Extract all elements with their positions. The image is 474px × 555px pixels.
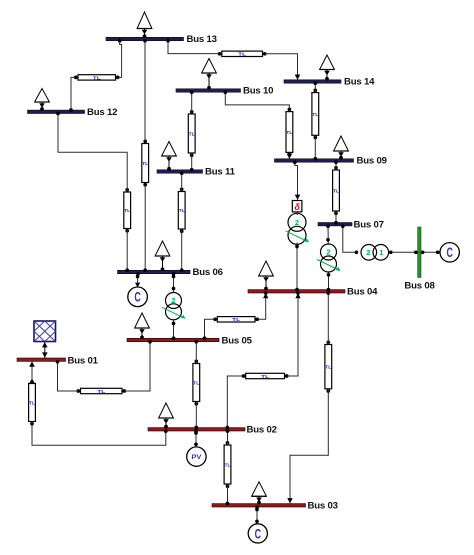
bus Bus 14 — [284, 77, 375, 88]
node transformer 4-9 terminal — [295, 245, 299, 249]
wire Bus05 to line 1-5 — [125, 342, 151, 391]
bus Bus 04 — [248, 287, 378, 298]
wire regulator to transformer 4-9 — [296, 212, 298, 215]
svg-text:Bus 09: Bus 09 — [357, 156, 387, 167]
svg-text:Bus 07: Bus 07 — [354, 219, 384, 230]
svg-text:TL: TL — [97, 389, 105, 395]
line Line 1-5 — [76, 388, 126, 395]
load Load 10 — [202, 59, 217, 90]
node Bus01 bottom connection arrows — [29, 360, 59, 367]
wire Bus06 to generator C6 (with arrow) — [135, 274, 140, 288]
line Line 12-13 — [74, 75, 120, 82]
bus Bus 03 — [212, 501, 338, 512]
svg-text:2: 2 — [366, 248, 370, 257]
line Line 6-13 — [142, 139, 149, 186]
bus Bus 11 — [157, 167, 236, 178]
line Line 9-10 — [286, 108, 293, 157]
generator C at Bus 06 — [128, 287, 148, 307]
line Line 4-5 — [213, 317, 259, 324]
node generator PV terminal — [194, 431, 198, 446]
wire Bus01 to line 1-2 — [31, 362, 33, 384]
svg-text:TL: TL — [224, 462, 230, 468]
svg-text:TL: TL — [193, 380, 199, 386]
wire Bus12 to line 6-12 — [58, 114, 127, 192]
wire Bus07 to transformer 4-7 — [327, 226, 329, 244]
generator PV at Bus 02 — [187, 447, 206, 466]
wire line 9-14 to Bus09 — [314, 136, 316, 159]
wire Bus09 to regulator/transformer 4-9 (with arrow) — [295, 162, 301, 200]
wire line 7-9 to Bus07 — [335, 211, 337, 222]
svg-text:2: 2 — [326, 248, 330, 257]
svg-text:Bus 04: Bus 04 — [347, 287, 378, 298]
node Bus10 junctions — [190, 90, 227, 94]
node Bus07 junctions — [326, 221, 345, 228]
wire Bus08 to generator C8 — [421, 251, 440, 253]
wire transformer 5-6 to Bus05 — [173, 320, 175, 338]
svg-text:2: 2 — [171, 296, 175, 305]
wire line 6-12 to Bus06 — [126, 229, 128, 270]
svg-text:TL: TL — [261, 374, 269, 380]
wire Bus13 to line 6-13 — [144, 41, 146, 141]
transformer T 5-6 — [162, 293, 186, 320]
node Bus12 junctions — [56, 108, 73, 115]
wire line 1-5 to Bus01 — [58, 362, 79, 392]
wire Bus03 to generator C3 — [256, 507, 258, 524]
wire line 12-13 to Bus12 — [71, 77, 76, 110]
bus Bus 13 — [106, 34, 217, 45]
svg-text:Bus 12: Bus 12 — [87, 107, 117, 118]
svg-text:C: C — [134, 290, 141, 305]
generator C at Bus 08 — [440, 243, 459, 262]
node Bus09 junctions — [293, 157, 338, 164]
load Load 06 — [155, 241, 170, 271]
wire Bus11 to line 6-11 — [181, 173, 183, 191]
wire line 2-5 to Bus02 — [195, 402, 197, 428]
wire line 9-10 to Bus09 (with arrow) — [287, 153, 293, 159]
load Load 03 — [252, 482, 267, 505]
line Line 6-12 — [124, 188, 131, 233]
svg-text:2: 2 — [295, 218, 299, 227]
svg-text:Bus 10: Bus 10 — [243, 86, 273, 97]
generator C at Bus 03 — [248, 524, 267, 543]
load Load 09 — [334, 136, 349, 160]
svg-text:Bus 02: Bus 02 — [247, 425, 277, 436]
wire line 4-5 to Bus04 (with arrow) — [258, 293, 268, 319]
node Bus04 junctions — [264, 288, 331, 295]
svg-text:TL: TL — [124, 208, 130, 214]
bus Bus 05 — [127, 335, 253, 346]
svg-text:Bus 06: Bus 06 — [193, 267, 223, 278]
node Bus14 junctions — [313, 81, 317, 85]
wire Bus13 to line 12-13 (down-left) — [118, 41, 122, 78]
line Line 7-9 — [333, 166, 340, 215]
wire line 10-11 to Bus11 — [191, 153, 193, 169]
wire transformer 4-9 to Bus04 — [296, 243, 298, 290]
svg-text:TL: TL — [238, 52, 246, 58]
load Load 12 — [35, 89, 50, 111]
svg-text:Bus 05: Bus 05 — [222, 335, 253, 346]
node Bus06 junctions — [125, 268, 183, 275]
svg-text:Bus 08: Bus 08 — [404, 281, 435, 292]
svg-text:TL: TL — [93, 75, 101, 81]
wire Bus10 to line 9-10 — [225, 92, 289, 111]
svg-text:TL: TL — [325, 364, 331, 370]
wire Bus06 to transformer 5-6 — [173, 274, 175, 293]
wire Bus02 to generator PV — [195, 431, 197, 447]
svg-text:C: C — [255, 526, 262, 541]
node Bus02 junctions — [164, 426, 229, 433]
transformer T 4-7 — [317, 244, 341, 272]
node transformer 4-7 terminals — [326, 238, 330, 277]
node Bus11 junctions — [180, 168, 194, 175]
wire Bus05 to line 4-5 — [205, 319, 215, 338]
node Bus13 junctions — [118, 39, 170, 43]
wire transformer 7-8 to Bus08 — [392, 251, 418, 253]
line Line 9-14 — [312, 89, 319, 140]
bus Bus 06 — [118, 267, 223, 278]
bus Bus 08 — [404, 227, 435, 292]
node Bus08 junctions — [414, 250, 440, 254]
node transformer 5-6 terminals — [172, 275, 176, 326]
svg-text:Bus 14: Bus 14 — [344, 77, 375, 88]
wire line 13-14 to Bus14 (with arrow) — [265, 54, 300, 80]
line Line 10-11 — [188, 110, 195, 157]
wire transformer 4-7 to Bus04 — [328, 272, 330, 290]
wire Bus14 to line 9-14 — [314, 83, 316, 92]
wire Bus13 to line 13-14 — [168, 41, 220, 54]
svg-text:Bus 03: Bus 03 — [308, 501, 338, 512]
svg-text:TL: TL — [179, 208, 185, 214]
bus Bus 10 — [176, 86, 273, 97]
load Load 02 — [159, 403, 174, 428]
wire line 6-11 to Bus06 — [181, 229, 183, 270]
svg-text:Bus 11: Bus 11 — [205, 167, 236, 178]
line Line 6-11 — [178, 187, 185, 233]
svg-text:TL: TL — [286, 130, 292, 136]
svg-text:Bus 01: Bus 01 — [68, 355, 99, 366]
load Load 05 — [135, 313, 150, 339]
svg-text:TL: TL — [333, 188, 339, 194]
wire line 3-4 to Bus03 (long, with arrow) — [287, 293, 328, 503]
line Line 2-3 — [224, 441, 231, 488]
node generator C6 terminal — [136, 275, 140, 279]
svg-text:TL: TL — [312, 112, 318, 118]
wire line 1-2 to Bus02 (long) — [32, 422, 166, 446]
wire line 2-3 to Bus03 — [227, 484, 229, 503]
svg-text:C: C — [447, 245, 454, 260]
svg-text:Bus 13: Bus 13 — [187, 34, 217, 45]
node Bus05 junctions — [148, 336, 206, 343]
bus Bus 02 — [148, 425, 277, 436]
external grid feeder — [34, 321, 56, 358]
svg-text:TL: TL — [29, 400, 35, 406]
wire line 2-4 to Bus04 (with arrow) — [287, 293, 301, 376]
bus Bus 09 — [275, 156, 387, 167]
transformer T 7-8 — [355, 245, 393, 261]
svg-text:δ: δ — [295, 202, 301, 212]
wire Bus05 to line 2-5 — [195, 342, 197, 363]
wire Bus10 to line 10-11 — [191, 92, 193, 113]
regulator box (transformer 4-9 control) — [292, 201, 302, 212]
svg-text:1: 1 — [379, 248, 383, 257]
load Load 11 — [162, 142, 177, 171]
bus Bus 12 — [28, 107, 118, 118]
svg-text:TL: TL — [232, 317, 240, 323]
bus Bus 07 — [318, 219, 384, 230]
load Load 14 — [320, 55, 335, 81]
line Line 1-2 — [29, 378, 36, 425]
node Bus03 junctions — [226, 502, 259, 509]
svg-text:TL: TL — [142, 161, 148, 167]
svg-text:PV: PV — [191, 454, 202, 461]
line Line 2-5 — [193, 359, 200, 405]
line Line 13-14 — [218, 51, 267, 58]
wire Bus02 to line 2-4 — [227, 376, 243, 428]
node generator C3 terminal — [255, 508, 259, 524]
wire Bus07 to transformer 7-8 — [343, 226, 355, 252]
wire line 6-13 to Bus06 — [144, 185, 146, 270]
wire Bus09 to line 7-9 — [335, 162, 337, 170]
load Load 13 — [137, 12, 152, 38]
bus Bus 01 — [17, 355, 99, 366]
load Load 04 — [259, 261, 274, 290]
line Line 2-4 — [242, 373, 289, 380]
line Line 3-4 — [325, 340, 332, 392]
wire Bus02 to line 2-3 — [227, 431, 229, 445]
transformer T 4-9 — [286, 213, 310, 244]
svg-text:TL: TL — [189, 131, 195, 137]
